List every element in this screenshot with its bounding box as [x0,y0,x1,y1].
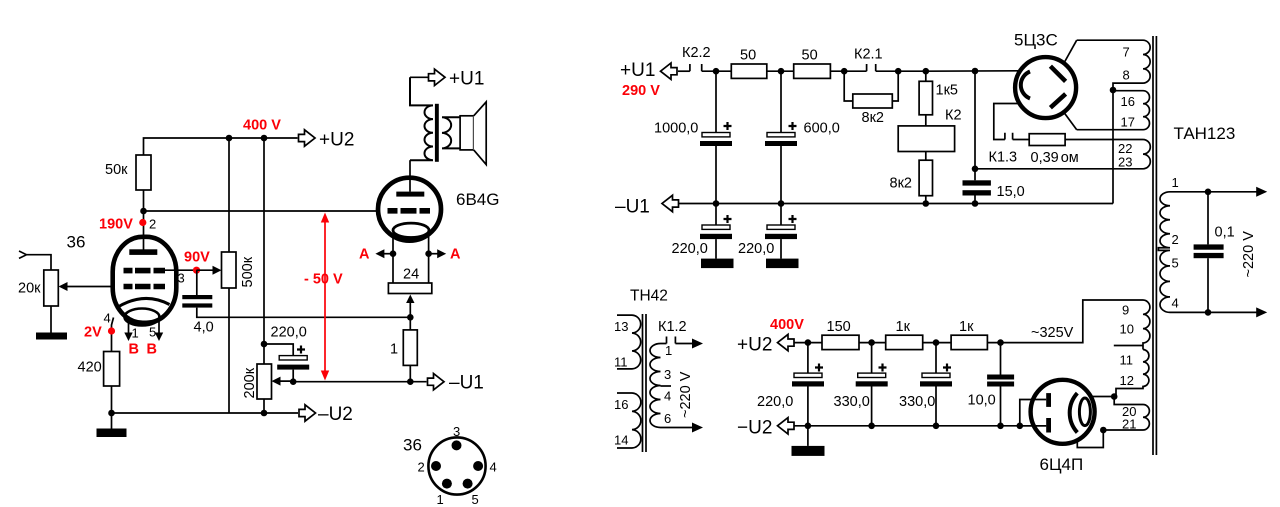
ground [766,259,799,269]
arrow mains bottom [692,423,703,433]
output transformer core [435,104,439,162]
wire 20k to ground [50,306,52,333]
svg-text:0,1: 0,1 [1215,225,1235,241]
svg-text:~325V: ~325V [1031,325,1074,341]
svg-text:+U2: +U2 [319,130,354,151]
TN42 winding 16-14 [617,393,641,448]
wire cap to -U1 rail [292,370,294,382]
+U2 bus [794,342,823,344]
svg-text:50к: 50к [105,162,128,178]
svg-text:330,0: 330,0 [834,394,870,410]
relay coil К2 [925,115,927,126]
wire 6B4G plate up [409,160,411,191]
wire 200k wiper arrow [275,380,293,382]
arrow mains top [692,339,703,349]
svg-text:2: 2 [418,460,425,475]
resistor R 150 [822,335,859,349]
TAN123 transformer core [1152,36,1154,455]
resistor R 1к first [886,335,923,349]
wire 500k bottom to ground bus [228,288,230,413]
TAN123 winding 9-10 [1143,300,1150,350]
capacitor C 0,1 [1207,192,1209,245]
node 8k2 bypass left [841,68,848,75]
resistor R 8к2 bypass [844,71,898,101]
TN42 tap 3-4 [661,385,672,387]
svg-text:50: 50 [740,48,756,64]
node 220,0 filter [805,339,812,346]
terminal arrow -U2 [299,405,316,421]
node 8/16 tap [1110,87,1117,94]
svg-text:+U1: +U1 [449,69,484,90]
TAN123 winding 7-8 [1077,40,1150,90]
6B4G anode bar [396,192,424,197]
tube 36 anode bar [129,249,157,255]
svg-text:14: 14 [614,433,628,448]
6Ц4П bottom loop to pin 21 [1077,430,1103,448]
node cap 600 [778,68,785,75]
-U1 rail wire [293,381,426,383]
terminal arrow +U1 [429,69,446,85]
switch K1.2 [661,337,695,344]
rectifier tube 5Ц3С envelope [1015,57,1076,118]
mains wire bottom [1170,311,1258,313]
tube 36 socket pinout circle [428,437,485,494]
6Ц4П cathode arc [1070,393,1078,432]
rectifier tube 6Ц4П envelope [1031,380,1095,444]
node -U1 caps [713,200,720,207]
TN42 winding 13-11 [617,315,641,369]
capacitor C 4,0 [182,295,212,299]
svg-text:220,0: 220,0 [672,241,708,257]
wire to K2.1 [830,70,866,72]
6Ц4П heater oval [1079,398,1090,426]
svg-text:0,39ом: 0,39ом [1031,150,1079,166]
svg-text:1к: 1к [896,319,911,335]
svg-text:К2.1: К2.1 [854,47,883,63]
svg-text:2: 2 [1172,232,1179,247]
resistor R 50 (first) [731,64,767,78]
svg-text:90V: 90V [184,250,210,266]
tube 36 filament arc [125,309,160,326]
socket pin 1 [442,479,452,489]
svg-text:11: 11 [1120,353,1134,368]
resistor R 1 [403,330,417,366]
svg-text:3: 3 [178,271,185,286]
svg-text:6B4G: 6B4G [456,190,499,209]
svg-text:15,0: 15,0 [997,184,1025,200]
6B4G grid dashes [388,208,431,214]
svg-text:1: 1 [437,492,444,507]
svg-text:+U1: +U1 [620,60,655,81]
wire wiper to R1 [409,317,411,330]
svg-text:6: 6 [664,411,671,426]
top bus to 5Ts3S [926,70,1020,72]
node -U2 caps [805,423,812,430]
ground [97,429,127,438]
node ground bus [108,410,115,417]
socket pin 5 [463,479,473,489]
wire R50 to node [767,70,794,72]
ground [807,426,809,446]
node red 2V [108,327,115,334]
svg-text:6Ц4П: 6Ц4П [1040,455,1084,474]
svg-text:9: 9 [1122,303,1129,318]
node x975 top [972,68,979,75]
svg-text:10,0: 10,0 [968,393,996,409]
capacitor C 1000,0 [715,71,717,132]
node 190V junction [140,208,147,215]
svg-text:24: 24 [403,267,419,283]
wire pin4 to 420 [112,318,114,352]
resistor R 50 (second) [794,64,831,78]
capacitor C 220,0 filter [807,343,809,374]
svg-text:А: А [359,247,370,263]
socket pin 2 [431,461,441,471]
svg-text:5Ц3С: 5Ц3С [1014,31,1058,50]
svg-text:23: 23 [1118,155,1132,170]
node dot bus x229 [226,135,233,142]
resistor R 1к second [951,335,987,349]
node cap/wiper [290,378,297,385]
svg-text:3: 3 [453,424,460,439]
svg-text:~220 V: ~220 V [1241,231,1257,278]
potentiometer R 200к [257,364,272,399]
wire cap 4,0 to bias rail [197,308,410,318]
wire 50k top to +U2 bus [144,138,298,155]
TAN123 winding 20-21 [1103,397,1149,431]
5Ц3С filament lead / K1.3 [994,104,1029,140]
svg-text:2V: 2V [84,325,102,341]
svg-text:4: 4 [664,389,671,404]
svg-text:10: 10 [1120,322,1134,337]
svg-text:400 V: 400 V [243,118,281,134]
svg-text:36: 36 [403,436,422,455]
6B4G filament lead right [428,235,430,284]
switch K2.2 [678,70,690,72]
socket pin 3 [452,440,462,450]
switch K2.1 [866,64,868,71]
tube 36 grid row lower [124,284,166,290]
svg-text:290 V: 290 V [622,83,660,99]
svg-text:3: 3 [664,367,671,382]
resistor R 1к5 [925,71,927,81]
svg-text:5: 5 [472,492,479,507]
6Ц4П anode bar upper [1046,393,1051,407]
wire input to 20k pot [27,255,52,270]
svg-text:36: 36 [67,233,86,252]
svg-text:13: 13 [614,319,628,334]
node 10,0 [997,339,1004,346]
ground bus wire [112,412,299,414]
svg-text:220,0: 220,0 [271,325,307,341]
node 23-tap wire [972,166,979,173]
wire 200k bottom [263,399,265,413]
tube 36 cathode arc [117,298,170,307]
ground [36,333,67,340]
svg-text:1: 1 [1172,175,1179,190]
svg-text:2: 2 [149,217,156,232]
svg-text:17: 17 [1121,115,1135,130]
svg-text:+U2: +U2 [737,335,772,356]
output transformer secondary [442,117,460,148]
resistor R 50к [136,155,151,190]
5Ц3С anode lead top [1064,40,1077,63]
tube 36 heater pin1 arrow [128,316,130,334]
svg-text:К2.2: К2.2 [682,45,711,61]
input terminal [19,251,27,258]
svg-text:К2: К2 [945,108,962,124]
wire plate lead down into tube 36 [143,211,145,250]
6Ц4П anode bar lower [1046,418,1051,433]
svg-text:330,0: 330,0 [899,394,935,410]
output transformer primary [410,77,433,160]
wire R1 to -U1 rail [409,365,411,381]
svg-text:А: А [450,247,461,263]
5Ц3С anode upper [1050,66,1065,81]
wire to 325V riser [987,300,1143,343]
5Ц3С filament arc [1021,72,1030,99]
svg-text:5: 5 [149,325,156,340]
svg-text:21: 21 [1122,417,1136,432]
TAN123 winding 16-17 [1077,91,1150,130]
node 330,0 second [933,339,940,346]
svg-text:400V: 400V [770,317,804,333]
svg-text:420: 420 [78,360,102,376]
svg-text:~220 V: ~220 V [678,371,694,418]
filament A arrow left [379,253,393,255]
red measure arrow -50V [321,213,329,381]
5Ц3С anode lower [1050,94,1065,108]
node dot bus x264 [261,135,268,142]
svg-text:–U1: –U1 [449,373,484,394]
svg-text:150: 150 [827,319,851,335]
svg-text:1: 1 [132,326,139,341]
capacitor C 220,0 (ps right) [780,204,782,226]
svg-text:4: 4 [1172,296,1179,311]
svg-text:500к: 500к [240,256,256,287]
svg-text:1к: 1к [959,319,974,335]
node R1 bottom [407,378,414,385]
svg-text:1000,0: 1000,0 [654,121,698,137]
wire tap down to -U1 bus [1112,90,1114,204]
svg-text:ТН42: ТН42 [630,288,668,305]
ground [701,259,734,269]
wire 90V down to cap 4,0 [196,270,198,295]
node 200k top [261,341,268,348]
svg-text:11: 11 [614,355,628,370]
svg-text:7: 7 [1123,45,1130,60]
capacitor C 330,0 first [871,343,873,374]
capacitor C 10,0 [1000,343,1002,375]
svg-text:1к5: 1к5 [936,83,958,99]
TN42 transformer core [642,314,644,452]
svg-text:4: 4 [490,460,497,475]
svg-text:16: 16 [614,397,628,412]
svg-text:220,0: 220,0 [757,394,793,410]
svg-text:4,0: 4,0 [194,320,214,336]
node 1k5 [923,68,930,75]
capacitor C 15,0 [974,71,976,180]
potentiometer R 20к [44,270,59,306]
capacitor C 330,0 second [935,343,937,374]
hum pot wiper arrow [409,300,411,317]
tube 36 grid row upper [124,268,166,274]
-U1 bus [679,203,1113,205]
svg-text:12: 12 [1120,373,1134,388]
svg-text:50: 50 [802,48,818,64]
wire 20k wiper from tube grid with arrow [62,286,114,288]
resistor R 420 [104,352,120,387]
svg-text:5: 5 [1172,256,1179,271]
wire to ground [111,413,113,429]
node red 190V [139,219,146,226]
svg-text:В: В [147,342,157,358]
svg-text:20к: 20к [18,281,41,297]
wire grid3 out right [165,269,197,271]
svg-text:16: 16 [1121,94,1135,109]
6Ц4П filament top wire [1091,396,1115,398]
tap stub 10/11 [1114,345,1143,347]
svg-text:–U2: –U2 [318,404,353,425]
svg-text:- 50 V: - 50 V [304,272,343,288]
svg-text:190V: 190V [99,217,133,233]
wire mains bottom [661,427,695,429]
terminal arrow +U2 [299,130,316,146]
svg-text:–U1: –U1 [615,197,650,218]
capacitor C 220,0 (ps left) [715,204,717,226]
svg-text:220,0: 220,0 [738,241,774,257]
wire grid bus to 6B4G [144,210,379,212]
wire 50k bottom to plate node [143,190,145,211]
wire 420 to ground bus [111,386,113,413]
socket pin 4 [473,461,483,471]
potentiometer R 500к [222,252,237,288]
wire bus x264 down [263,138,265,364]
tube 36 heater pin5 arrow [158,316,160,334]
TAN123 winding 22-23 with wire to 0,39 [975,140,1150,169]
wire node to cap 220,0 [264,344,293,356]
tube 36 envelope [113,237,177,323]
svg-text:К1.2: К1.2 [658,319,687,335]
node 330,0 first [868,339,875,346]
6B4G filament arc [393,223,429,237]
svg-text:4: 4 [104,311,111,326]
6B4G filament lead left [392,235,394,284]
speaker horn [474,102,487,165]
TAN123 winding 11-12 [1116,350,1149,397]
svg-text:8к2: 8к2 [890,176,912,192]
svg-text:1: 1 [665,343,672,358]
6B4G tube envelope [378,178,441,241]
svg-text:К1.3: К1.3 [989,150,1018,166]
svg-text:ТАН123: ТАН123 [1174,124,1236,143]
svg-text:600,0: 600,0 [804,121,840,137]
svg-text:1: 1 [390,342,398,358]
terminal arrow -U1 [428,374,445,390]
TN42 primary winding [650,344,661,428]
svg-text:−U2: −U2 [737,418,772,439]
svg-text:8: 8 [1123,68,1130,83]
node 200k bottom [261,410,268,417]
TAN123 primary winding 1-2 / 5-4 [1158,192,1170,313]
wire 90V to 500k wiper arrow [197,269,219,271]
mains wire top [1170,191,1258,193]
hum pot R 24 [388,283,431,294]
resistor R 0,39 ом [1029,134,1065,146]
filament A arrow right [429,253,443,255]
-U2 bus [794,425,1047,427]
node 8k2 bypass right [895,68,902,75]
svg-text:200к: 200к [242,367,258,398]
node cap 1000 [713,68,720,75]
speaker body [460,116,474,150]
svg-text:В: В [129,342,139,358]
resistor R 8к2 lower [925,152,927,161]
node red 90V [193,267,200,274]
capacitor C 600,0 [780,71,782,132]
5Ц3С anode lead bottom [1064,113,1077,130]
svg-text:8к2: 8к2 [862,110,884,126]
wire bus x229 down to 500k [228,138,230,252]
6Ц4П anode leads [1020,400,1046,426]
node wiper junction [407,314,414,321]
